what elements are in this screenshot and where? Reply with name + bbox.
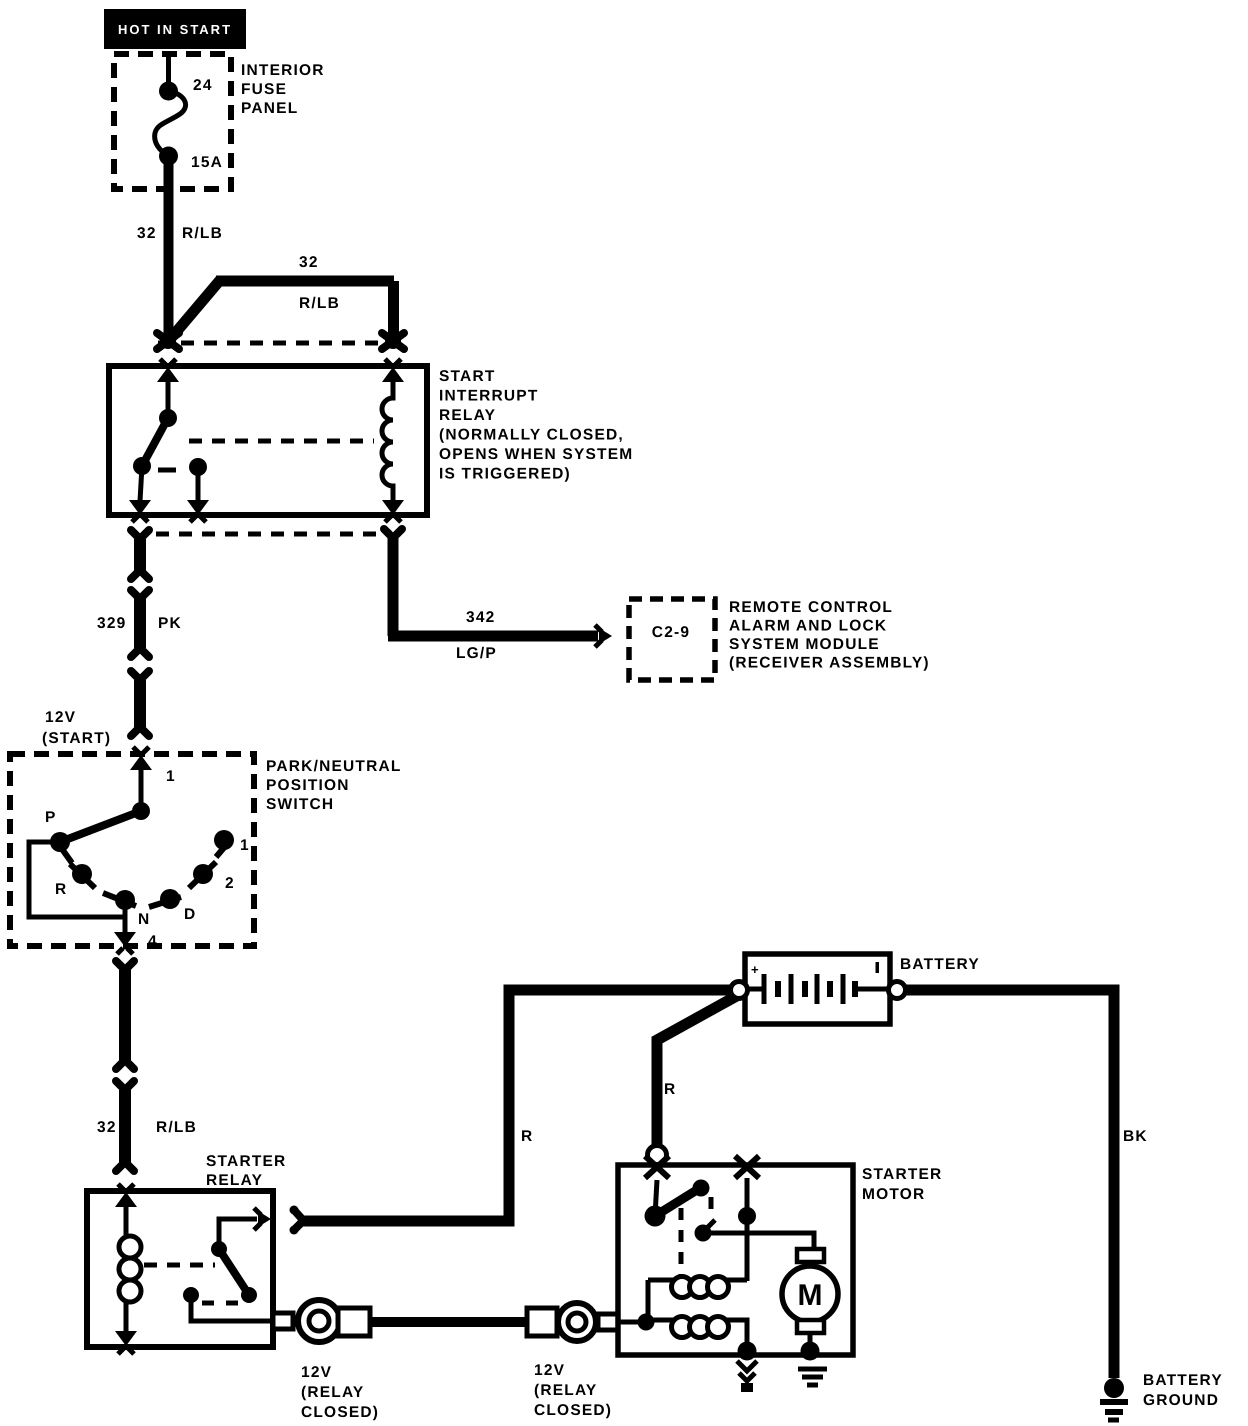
- svg-text:329: 329: [97, 615, 126, 632]
- svg-text:STARTER: STARTER: [862, 1166, 942, 1183]
- svg-text:N: N: [138, 911, 150, 928]
- svg-text:32: 32: [299, 254, 319, 271]
- svg-text:RELAY: RELAY: [439, 407, 496, 424]
- svg-text:32: 32: [137, 225, 157, 242]
- motor brush lower: [797, 1320, 824, 1333]
- junction node left at connector: [157, 333, 179, 349]
- svg-text:M: M: [798, 1279, 823, 1312]
- svg-text:LG/P: LG/P: [456, 645, 497, 662]
- motor M: [782, 1266, 838, 1322]
- label 12V relay closed left: [301, 1364, 379, 1421]
- wire P to terminal 4: [29, 842, 125, 917]
- starter motor box: [618, 1165, 942, 1355]
- wire segment connector bone 1: [128, 527, 153, 583]
- switch terminal 1 arrow top: [130, 747, 176, 785]
- wire from banner into fuse: [166, 52, 171, 90]
- svg-text:(RELAY: (RELAY: [534, 1382, 597, 1399]
- wire segment connector bone 2 (329 PK): [97, 587, 182, 661]
- relay coil: [382, 381, 393, 500]
- thick battery cable to starter motor: [368, 1317, 529, 1327]
- svg-text:D: D: [184, 906, 196, 923]
- interior fuse panel box: [114, 54, 325, 189]
- relay terminal arrow top-right (coil): [382, 359, 404, 382]
- node 12V (START): [42, 709, 111, 747]
- wire from top-right terminal to field coil: [738, 1178, 756, 1281]
- svg-text:PK: PK: [158, 615, 182, 632]
- starter relay output arrow right: [254, 1208, 271, 1230]
- remote control alarm module label: [729, 599, 930, 672]
- battery stud circle above starter motor: [648, 1146, 667, 1165]
- svg-text:(NORMALLY CLOSED,: (NORMALLY CLOSED,: [439, 427, 624, 444]
- svg-text:PANEL: PANEL: [241, 100, 298, 117]
- relay terminal arrow top-left: [157, 359, 179, 382]
- svg-text:32: 32: [97, 1119, 117, 1136]
- starter relay switch: [183, 1219, 257, 1303]
- relay coil terminal arrow bottom: [382, 500, 404, 522]
- wire from eyelet into motor: [616, 1320, 648, 1325]
- svg-text:1: 1: [240, 837, 250, 854]
- svg-text:R/LB: R/LB: [182, 225, 223, 242]
- switch terminal 4 arrow bottom: [114, 900, 158, 954]
- svg-text:R/LB: R/LB: [156, 1119, 197, 1136]
- starter motor terminal flare top-right: [735, 1156, 759, 1178]
- svg-text:BATTERY: BATTERY: [900, 956, 980, 973]
- svg-text:24: 24: [193, 77, 213, 94]
- starter solenoid switch lever: [645, 1180, 712, 1277]
- svg-text:P: P: [45, 809, 57, 826]
- contact 2: [189, 862, 235, 892]
- svg-text:IS TRIGGERED): IS TRIGGERED): [439, 466, 571, 483]
- svg-text:PARK/NEUTRAL: PARK/NEUTRAL: [266, 758, 402, 775]
- svg-text:INTERRUPT: INTERRUPT: [439, 388, 539, 405]
- park/neutral position switch box: [10, 754, 402, 946]
- svg-text:(RECEIVER ASSEMBLY): (RECEIVER ASSEMBLY): [729, 655, 930, 672]
- starter solenoid fixed contact: [695, 1220, 716, 1242]
- svg-text:HOT IN START: HOT IN START: [118, 22, 232, 37]
- svg-text:RELAY: RELAY: [206, 1172, 263, 1189]
- svg-text:MOTOR: MOTOR: [862, 1186, 925, 1203]
- contact 1: [214, 830, 250, 857]
- svg-text:R/LB: R/LB: [299, 295, 340, 312]
- svg-text:4: 4: [148, 933, 158, 950]
- svg-text:(START): (START): [42, 730, 111, 747]
- svg-text:SWITCH: SWITCH: [266, 796, 334, 813]
- label 12V relay closed right: [534, 1362, 612, 1419]
- starter relay coil: [119, 1206, 141, 1332]
- svg-text:REMOTE CONTROL: REMOTE CONTROL: [729, 599, 893, 616]
- starter relay label: [206, 1153, 286, 1189]
- relay switch contacts: [133, 381, 207, 476]
- wire segment connector bone 5 (32 R/LB): [97, 1078, 197, 1175]
- battery negative terminal: [889, 982, 906, 999]
- svg-text:+: +: [751, 962, 759, 977]
- svg-text:12V: 12V: [534, 1362, 565, 1379]
- junction node right at connector: [382, 333, 404, 349]
- relay terminal arrow bottom-left 2: [187, 467, 209, 522]
- field coil lower: [646, 1317, 747, 1352]
- switch wiper: [60, 769, 150, 842]
- relay mechanical linkage dashed: [189, 439, 374, 444]
- earth ground symbol under motor: [798, 1369, 827, 1385]
- svg-text:12V: 12V: [301, 1364, 332, 1381]
- connector dashed line above relay: [158, 341, 406, 346]
- starter relay output to battery stud: [191, 1295, 273, 1321]
- svg-text:OPENS WHEN SYSTEM: OPENS WHEN SYSTEM: [439, 446, 633, 463]
- svg-text:SYSTEM MODULE: SYSTEM MODULE: [729, 636, 880, 653]
- contact P: [45, 809, 72, 863]
- svg-text:2: 2: [225, 875, 235, 892]
- svg-text:FUSE: FUSE: [241, 81, 287, 98]
- svg-text:CLOSED): CLOSED): [534, 1402, 612, 1419]
- contact R: [55, 864, 95, 898]
- svg-text:GROUND: GROUND: [1143, 1392, 1219, 1409]
- starter relay coil terminal arrow top: [115, 1184, 137, 1207]
- contact D: [149, 889, 196, 923]
- connector dashed line below relay: [156, 532, 376, 537]
- ring terminal eyelet 2: [527, 1303, 618, 1341]
- svg-text:12V: 12V: [45, 709, 76, 726]
- svg-text:ALARM AND LOCK: ALARM AND LOCK: [729, 618, 887, 635]
- svg-text:R: R: [664, 1081, 676, 1098]
- battery cells: [747, 962, 888, 1004]
- junction dot field coils: [638, 1314, 655, 1331]
- wire R from battery to starter motor: [657, 993, 742, 1146]
- starter solenoid terminal flare top-left: [645, 1156, 669, 1178]
- case ground symbol: [737, 1361, 757, 1392]
- battery positive terminal: [731, 982, 748, 999]
- svg-text:BATTERY: BATTERY: [1143, 1372, 1223, 1389]
- svg-text:CLOSED): CLOSED): [301, 1404, 379, 1421]
- connector C2-9 box: [629, 599, 715, 680]
- starter relay box: [87, 1191, 273, 1347]
- svg-text:1: 1: [166, 768, 176, 785]
- motor ground lead: [801, 1333, 820, 1361]
- fuse F24 15A: [155, 77, 223, 171]
- wire segment connector bone 4: [113, 958, 138, 1073]
- battery box: [745, 954, 980, 1024]
- ring terminal eyelet 1: [273, 1300, 370, 1342]
- svg-text:POSITION: POSITION: [266, 777, 350, 794]
- starter relay coil terminal arrow bottom: [115, 1331, 137, 1354]
- svg-text:R: R: [521, 1128, 533, 1145]
- svg-text:15A: 15A: [191, 154, 223, 171]
- svg-text:C2-9: C2-9: [652, 624, 690, 641]
- wire 32 R/LB vertical from fuse panel: [164, 156, 174, 338]
- female connector flare on relay feed wire: [290, 1206, 304, 1235]
- svg-text:START: START: [439, 368, 496, 385]
- wire 342 LG/P to alarm module: [381, 526, 599, 663]
- power banner HOT IN START: [104, 9, 246, 49]
- starter relay linkage dashed: [144, 1263, 215, 1268]
- field coil upper: [648, 1277, 747, 1323]
- svg-text:BK: BK: [1123, 1128, 1148, 1145]
- start interrupt relay box: [109, 366, 633, 515]
- svg-text:(RELAY: (RELAY: [301, 1384, 364, 1401]
- wire segment connector bone 3: [128, 668, 153, 740]
- wire contact to motor brush: [703, 1233, 814, 1249]
- male connector arrow into C2-9: [595, 625, 612, 647]
- battery ground symbol: [1100, 1372, 1223, 1420]
- svg-text:STARTER: STARTER: [206, 1153, 286, 1170]
- wire 32 R/LB loop jog: [166, 254, 394, 344]
- motor brush upper: [797, 1249, 824, 1262]
- wire R from battery to relay contact: [300, 990, 740, 1221]
- case ground junction dot: [738, 1342, 757, 1361]
- svg-text:R: R: [55, 881, 67, 898]
- svg-text:INTERIOR: INTERIOR: [241, 62, 325, 79]
- wire BK battery to ground: [905, 990, 1148, 1378]
- contact N: [103, 890, 150, 928]
- relay terminal arrow bottom-left 1: [129, 466, 151, 522]
- svg-text:342: 342: [466, 609, 495, 626]
